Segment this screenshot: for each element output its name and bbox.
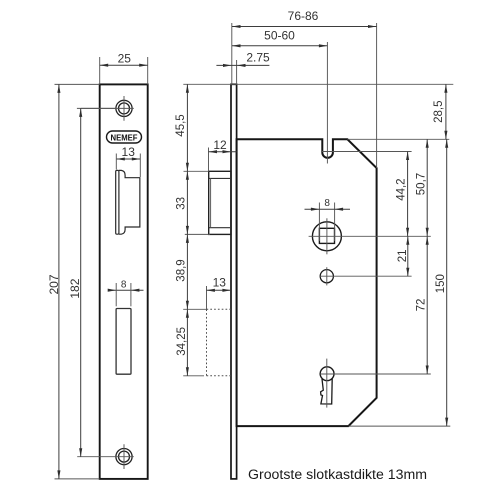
NEMEF logo xyxy=(107,131,142,143)
svg-text:2.75: 2.75 xyxy=(246,51,270,65)
left dim chain: 45,5 / 12 / 33 / 38,9 / 13 / 34,25 xyxy=(184,170,209,172)
svg-text:38,9: 38,9 xyxy=(175,259,187,281)
svg-text:50,7: 50,7 xyxy=(416,173,428,195)
keyhole xyxy=(320,367,334,381)
latch bolt (front) xyxy=(119,170,140,234)
svg-text:50-60: 50-60 xyxy=(264,29,295,43)
deadbolt slot xyxy=(116,309,131,375)
faceplate front view xyxy=(100,84,148,479)
svg-text:33: 33 xyxy=(175,197,187,210)
svg-text:8: 8 xyxy=(324,198,330,209)
svg-text:Grootste slotkastdikte 13mm: Grootste slotkastdikte 13mm xyxy=(248,467,427,482)
svg-text:72: 72 xyxy=(416,299,428,312)
hidden deadbolt slot (dashed) xyxy=(207,309,231,376)
top screw hole xyxy=(116,100,132,116)
right dim chain xyxy=(445,84,447,139)
svg-text:12: 12 xyxy=(213,138,227,152)
svg-text:NEMEF: NEMEF xyxy=(111,132,138,142)
dim 182 screw distance xyxy=(77,107,116,109)
latch housing box (edge view) xyxy=(209,171,231,234)
svg-text:207: 207 xyxy=(47,274,61,294)
long extension lines xyxy=(183,83,453,85)
svg-text:28,5: 28,5 xyxy=(433,101,445,123)
svg-text:13: 13 xyxy=(122,145,136,159)
svg-text:44,2: 44,2 xyxy=(395,178,407,200)
svg-text:150: 150 xyxy=(435,274,447,293)
svg-text:13: 13 xyxy=(213,275,227,289)
lock case body xyxy=(237,139,377,426)
svg-text:25: 25 xyxy=(118,52,132,66)
cylinder fixing hole xyxy=(320,270,333,283)
bottom screw hole xyxy=(116,449,132,465)
top dims 76-86 / 50-60 / 2.75 xyxy=(231,23,233,84)
svg-text:8: 8 xyxy=(121,279,127,290)
svg-text:76-86: 76-86 xyxy=(288,9,319,23)
svg-text:34,25: 34,25 xyxy=(176,327,188,356)
svg-text:21: 21 xyxy=(397,250,409,263)
svg-text:182: 182 xyxy=(68,278,82,298)
svg-text:45,5: 45,5 xyxy=(175,114,187,136)
faceplate edge-on strip xyxy=(231,84,237,479)
spindle follower (square hole) xyxy=(312,222,341,251)
dim 207 plate height xyxy=(55,83,100,85)
